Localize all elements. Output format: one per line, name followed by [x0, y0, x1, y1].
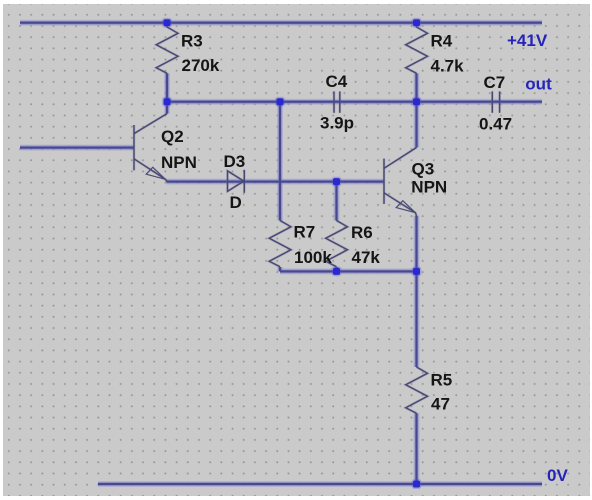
- svg-text:R5: R5: [431, 371, 453, 390]
- svg-text:R3: R3: [181, 32, 203, 51]
- svg-text:100k: 100k: [294, 248, 332, 267]
- svg-text:out: out: [525, 75, 552, 94]
- svg-text:NPN: NPN: [411, 177, 447, 196]
- svg-text:4.7k: 4.7k: [431, 57, 465, 76]
- svg-text:270k: 270k: [182, 56, 220, 75]
- svg-text:R6: R6: [351, 223, 373, 242]
- svg-text:Q3: Q3: [412, 160, 435, 179]
- svg-text:C7: C7: [484, 73, 506, 92]
- svg-text:C4: C4: [326, 72, 348, 91]
- svg-text:3.9p: 3.9p: [320, 113, 354, 132]
- svg-text:47k: 47k: [352, 248, 381, 267]
- svg-text:NPN: NPN: [161, 153, 197, 172]
- svg-text:D: D: [230, 193, 242, 212]
- svg-text:0.47: 0.47: [479, 114, 512, 133]
- svg-text:R4: R4: [431, 32, 453, 51]
- svg-text:0V: 0V: [547, 466, 568, 485]
- svg-text:Q2: Q2: [161, 127, 184, 146]
- svg-text:D3: D3: [224, 152, 246, 171]
- svg-text:+41V: +41V: [507, 31, 548, 50]
- svg-text:R7: R7: [294, 223, 316, 242]
- svg-text:47: 47: [431, 395, 450, 414]
